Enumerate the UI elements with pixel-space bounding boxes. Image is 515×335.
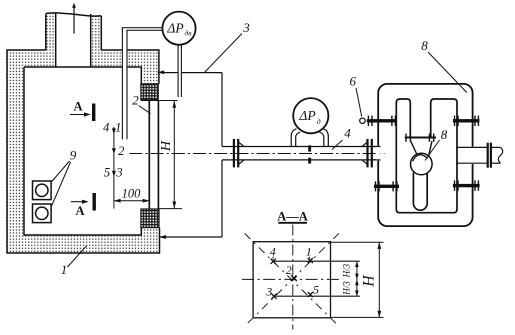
gauge dP-dv <box>162 12 195 45</box>
svg-text:1: 1 <box>61 262 68 277</box>
svg-text:1: 1 <box>115 121 121 135</box>
label 8 inner <box>425 127 448 161</box>
nozzle bottom-left <box>374 181 399 191</box>
svg-text:4: 4 <box>270 244 276 258</box>
gauge dP-d legs <box>291 129 328 147</box>
svg-text:9: 9 <box>70 148 77 163</box>
section A-A rectangle <box>253 242 330 318</box>
svg-text:Н/3: Н/3 <box>342 263 352 278</box>
chimney <box>46 13 102 67</box>
svg-text:Н: Н <box>159 140 174 152</box>
probe traverse line with points <box>103 121 124 209</box>
furnace inner boundary <box>24 67 141 235</box>
pipe flange right <box>366 139 373 168</box>
section A-A title <box>277 210 308 224</box>
impulse tube to furnace <box>122 28 162 140</box>
vessel inner liner <box>396 99 457 213</box>
dimension H/3 pair <box>342 261 359 296</box>
dimension H (duct) <box>142 101 183 209</box>
svg-text:А: А <box>73 100 82 114</box>
section points x-marks <box>271 258 313 299</box>
svg-text:8: 8 <box>421 38 428 53</box>
svg-text:3: 3 <box>115 166 122 180</box>
svg-text:д: д <box>317 117 321 126</box>
svg-text:100: 100 <box>122 186 142 200</box>
label 4 (pipe) <box>332 126 351 150</box>
svg-text:2: 2 <box>118 144 124 158</box>
svg-text:Н/3: Н/3 <box>342 281 352 296</box>
svg-text:3: 3 <box>265 285 272 299</box>
section marker A upper <box>70 100 95 122</box>
svg-text:ΔP: ΔP <box>298 108 315 123</box>
label 3 <box>205 20 251 72</box>
central well lower walls <box>413 173 427 211</box>
flue arrow <box>72 3 76 34</box>
svg-text:3: 3 <box>242 20 250 35</box>
sight ports 9 <box>33 181 52 223</box>
label 6 <box>350 74 362 117</box>
hatch block bottom <box>141 209 159 228</box>
pipe flange left <box>233 139 240 168</box>
svg-text:5: 5 <box>104 166 110 180</box>
dimension 100 <box>114 186 149 202</box>
vessel 8 outer shell <box>378 84 472 226</box>
svg-text:ΔP: ΔP <box>166 21 183 36</box>
label 9 <box>52 148 77 206</box>
measuring duct 2 walls <box>149 101 158 210</box>
gauge dP-d <box>293 98 328 133</box>
section centerlines <box>242 225 343 330</box>
svg-text:2: 2 <box>286 263 292 277</box>
hatch block top <box>141 84 158 100</box>
nozzle top-left with cock 6 <box>360 116 397 126</box>
svg-text:4: 4 <box>103 121 109 135</box>
label 2 <box>132 93 150 114</box>
svg-text:А—А: А—А <box>277 210 308 224</box>
svg-text:дв: дв <box>184 28 192 37</box>
nozzle top-right <box>453 116 480 126</box>
svg-text:6: 6 <box>350 74 357 89</box>
svg-text:4: 4 <box>344 126 351 141</box>
dome sensor 8 <box>411 153 433 175</box>
inner flange clamp <box>405 134 436 142</box>
dimension H (section) <box>331 242 384 317</box>
orifice plate taps <box>308 145 311 163</box>
svg-text:1: 1 <box>306 245 312 259</box>
svg-text:Н: Н <box>361 275 378 288</box>
svg-text:2: 2 <box>132 93 139 108</box>
section marker A lower <box>71 193 96 218</box>
traverse lines in section <box>273 261 360 296</box>
nozzle bottom-right <box>453 180 480 190</box>
furnace wall stipple <box>7 14 160 254</box>
impulse tube to duct box <box>178 45 182 97</box>
funnel lines <box>411 141 432 156</box>
exit stub right <box>456 147 503 163</box>
shell openings for pipes <box>376 146 380 161</box>
centerline axis <box>129 153 384 155</box>
pipe stub into vessel <box>373 147 381 160</box>
svg-text:5: 5 <box>313 282 319 296</box>
enclosure box 3 <box>158 70 222 239</box>
section point leaders <box>272 257 314 296</box>
pipe 4 <box>222 142 378 164</box>
section point labels <box>265 244 319 298</box>
furnace 1 outer boundary <box>7 50 160 253</box>
svg-text:А: А <box>75 204 84 218</box>
exit flange <box>487 143 492 168</box>
label 8 outer <box>421 38 467 93</box>
svg-text:8: 8 <box>441 127 448 142</box>
label 1 (furnace) <box>61 246 87 277</box>
